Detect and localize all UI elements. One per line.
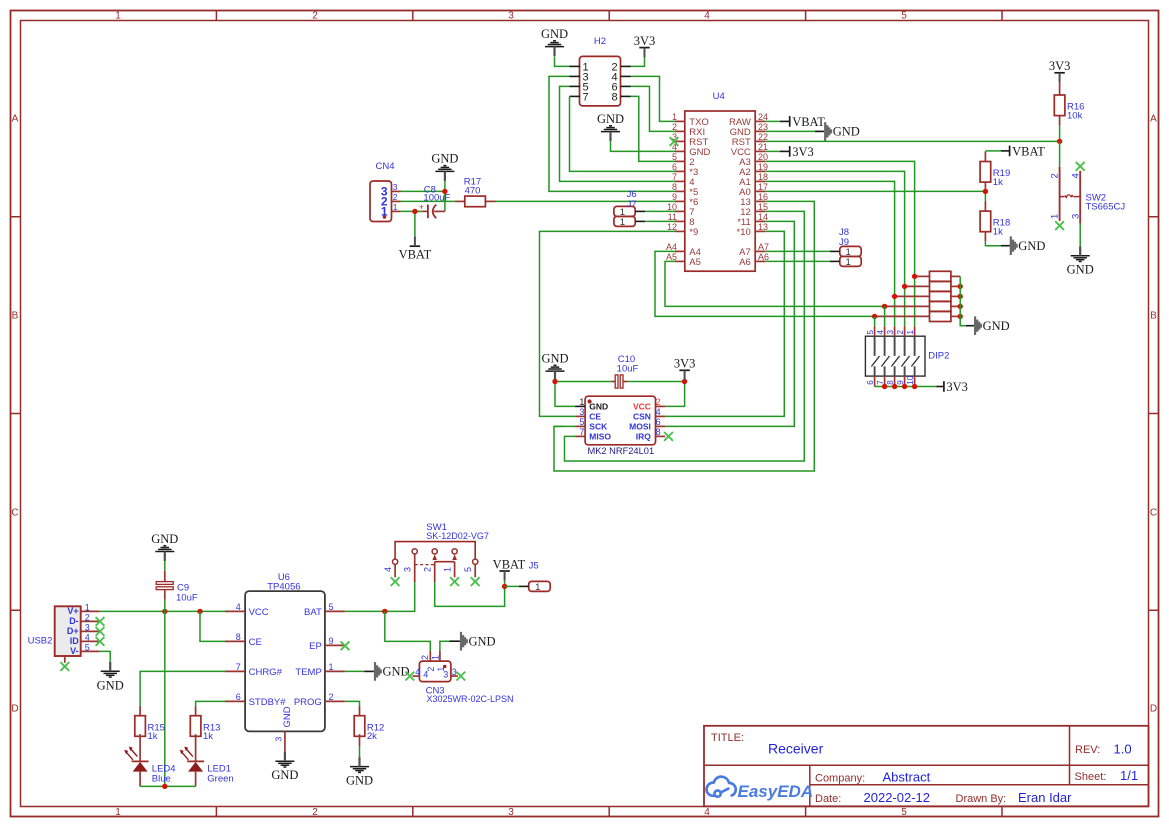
svg-text:3: 3 <box>508 11 514 22</box>
svg-text:1: 1 <box>535 582 540 593</box>
svg-text:3: 3 <box>1070 214 1081 219</box>
svg-text:5: 5 <box>579 417 584 427</box>
wire U4 pin14 to NRF MOSI <box>665 221 794 426</box>
svg-text:3V3: 3V3 <box>1049 59 1071 73</box>
svg-text:3V3: 3V3 <box>674 357 696 371</box>
wire U4 A5 to DIP2 pin4 row <box>665 261 885 306</box>
svg-text:VCC: VCC <box>249 607 269 618</box>
svg-text:3: 3 <box>443 670 448 680</box>
svg-text:1: 1 <box>443 567 453 572</box>
junction <box>958 314 963 319</box>
svg-text:D: D <box>11 704 18 715</box>
svg-text:2022-02-12: 2022-02-12 <box>864 790 931 805</box>
svg-text:2: 2 <box>329 692 334 702</box>
svg-text:2: 2 <box>672 122 677 132</box>
svg-text:2: 2 <box>656 397 661 407</box>
svg-text:V+: V+ <box>67 606 78 616</box>
svg-text:9: 9 <box>329 636 334 646</box>
U4 pin A5 <box>675 260 685 262</box>
svg-text:J5: J5 <box>529 560 539 571</box>
resistor R18 <box>984 202 986 212</box>
svg-text:VCC: VCC <box>633 401 651 411</box>
svg-text:1: 1 <box>393 202 398 212</box>
svg-text:VBAT: VBAT <box>1012 144 1045 158</box>
svg-text:7: 7 <box>672 172 677 182</box>
wire R12 to GND <box>359 746 361 757</box>
svg-text:10: 10 <box>906 375 915 384</box>
svg-text:VBAT: VBAT <box>493 557 526 571</box>
wire DIP2 pin5 riser <box>874 316 876 326</box>
svg-text:GND: GND <box>97 678 124 692</box>
svg-text:3: 3 <box>273 737 283 742</box>
wire TEMP to GND flag <box>345 670 364 672</box>
no-connect X on NRF pin8 IRQ <box>664 432 673 441</box>
svg-text:A5: A5 <box>666 252 677 262</box>
LED LED1 Green <box>195 734 197 761</box>
svg-text:U4: U4 <box>713 91 725 102</box>
ground GND above H2 pin1 <box>545 41 564 47</box>
svg-text:1: 1 <box>906 330 915 335</box>
U4 pin 11 <box>675 220 685 222</box>
svg-text:Blue: Blue <box>152 774 171 785</box>
svg-text:23: 23 <box>758 122 768 132</box>
wire U4 pin22 RST to R16/SW2 node <box>765 140 1059 142</box>
svg-text:D-: D- <box>69 616 79 626</box>
svg-text:TEMP: TEMP <box>295 667 321 678</box>
svg-text:8: 8 <box>672 182 677 192</box>
svg-text:J7: J7 <box>627 199 637 210</box>
svg-text:4: 4 <box>415 667 420 677</box>
U4 pin 14 <box>755 220 765 222</box>
wire U4 pin18 A1 to resistor network row3 / DIP2 pin3 <box>765 181 894 326</box>
svg-text:STDBY#: STDBY# <box>249 697 287 708</box>
svg-text:8: 8 <box>656 427 661 437</box>
connector J9 <box>840 256 861 266</box>
svg-text:GND: GND <box>1067 263 1094 277</box>
svg-text:C: C <box>11 508 18 519</box>
no-connect X on SW1 pin1 <box>450 577 459 586</box>
svg-text:1k: 1k <box>993 227 1003 238</box>
svg-text:2k: 2k <box>367 731 377 742</box>
wire U4 pin19 A2 to resistor network row2 / DIP2 pin2 <box>765 171 904 326</box>
svg-text:3V3: 3V3 <box>792 145 814 159</box>
svg-text:1: 1 <box>579 397 584 407</box>
connector J7 <box>614 216 635 226</box>
resistor network R row2 <box>905 285 930 287</box>
U4 pin A6 <box>755 260 765 262</box>
svg-text:4: 4 <box>85 633 90 643</box>
junction <box>682 379 687 384</box>
wire U4 pin12 to NRF CE <box>540 231 676 416</box>
svg-text:Company:: Company: <box>815 772 865 784</box>
wire VBUS to LED cathode rail <box>164 611 166 786</box>
wire SW2 pin3 to GND <box>1079 224 1081 247</box>
capacitor C9 <box>164 561 166 571</box>
no-connect X on SW2 pin1 <box>1055 221 1064 230</box>
U4 pin 9 <box>675 200 685 202</box>
wire DIP2 bottom common to 3V3 <box>875 386 937 388</box>
svg-text:A6: A6 <box>758 252 769 262</box>
svg-text:1k: 1k <box>203 731 213 742</box>
svg-text:2: 2 <box>85 613 90 623</box>
svg-text:1: 1 <box>620 217 625 228</box>
svg-text:470: 470 <box>465 185 481 196</box>
resistor R16 <box>1059 83 1061 95</box>
svg-text:19: 19 <box>758 162 768 172</box>
power flag 3V3 above R16 <box>1054 72 1064 74</box>
wire SW1 pin2 to VBAT node <box>435 582 505 606</box>
svg-text:PROG: PROG <box>294 697 322 708</box>
svg-text:CSN: CSN <box>633 411 651 421</box>
svg-text:VBAT: VBAT <box>792 115 825 129</box>
resistor R15 <box>139 706 141 716</box>
svg-text:4: 4 <box>1070 173 1081 178</box>
svg-text:D+: D+ <box>67 626 79 636</box>
svg-text:+: + <box>419 202 424 211</box>
U4 pin 20 <box>755 160 765 162</box>
wire BAT rail to SW1 pin3 <box>345 582 415 611</box>
svg-text:9: 9 <box>672 192 677 202</box>
svg-text:1k: 1k <box>148 731 158 742</box>
svg-text:GND: GND <box>589 401 608 411</box>
junction <box>892 384 897 389</box>
svg-text:GND: GND <box>151 532 178 546</box>
svg-text:REV:: REV: <box>1075 744 1100 756</box>
U4 pin A4 <box>675 250 685 252</box>
svg-text:4: 4 <box>236 602 241 612</box>
junction <box>958 284 963 289</box>
svg-text:*9: *9 <box>689 227 698 238</box>
svg-text:GND: GND <box>469 635 496 649</box>
U4 pin 1 <box>675 120 685 122</box>
svg-text:A: A <box>1150 114 1157 125</box>
wire R17 to U4 pin9 <box>496 200 675 202</box>
wire LED cathode rail <box>140 785 196 787</box>
svg-text:Eran Idar: Eran Idar <box>1018 790 1072 805</box>
svg-text:8: 8 <box>611 92 617 104</box>
resistor network R row1 <box>915 275 930 277</box>
svg-text:TP4056: TP4056 <box>267 581 300 592</box>
no-connect X on USB2 D+ <box>96 627 105 636</box>
svg-text:MK2 NRF24L01: MK2 NRF24L01 <box>587 446 654 456</box>
svg-text:3: 3 <box>452 667 457 677</box>
no-connect X on SW2 pin4 <box>1076 162 1085 171</box>
svg-text:GND: GND <box>983 319 1010 333</box>
svg-text:1: 1 <box>329 662 334 672</box>
junction <box>983 189 988 194</box>
resistor network R row4 <box>885 305 930 307</box>
svg-text:2: 2 <box>423 567 433 572</box>
no-connect X on USB2 D- <box>96 617 105 626</box>
U4 pin 21 <box>755 150 765 152</box>
connector CN4 <box>370 181 392 222</box>
wire R16 to RST node <box>1059 126 1061 142</box>
op-amp U4 main module <box>685 111 755 271</box>
svg-text:V-: V- <box>70 646 79 656</box>
wire U4 pin13 to NRF CSN <box>665 231 784 416</box>
ground GND above C9 <box>155 546 174 552</box>
wire BAT node to CN3 pin2 <box>385 611 431 651</box>
wire DIP2 pin4 riser <box>884 306 886 326</box>
svg-text:ID: ID <box>70 636 80 646</box>
svg-text:10k: 10k <box>1067 110 1083 121</box>
junction <box>412 209 417 214</box>
wire CN4.2 to R17 <box>401 200 455 202</box>
EasyEDA logo <box>706 777 735 797</box>
svg-text:10uF: 10uF <box>176 593 198 604</box>
svg-text:GND: GND <box>541 351 568 365</box>
junction <box>552 379 557 384</box>
junction <box>442 189 447 194</box>
power flag 3V3 at DIP2 <box>943 381 945 392</box>
svg-text:3: 3 <box>403 567 413 572</box>
ground GND flag at resistor network <box>974 316 982 335</box>
connector USB2 <box>55 606 81 656</box>
svg-text:DIP2: DIP2 <box>928 351 949 362</box>
U4 pin 19 <box>755 170 765 172</box>
capacitor C10 <box>611 381 615 383</box>
capacitor C8 <box>415 210 422 212</box>
svg-text:1/1: 1/1 <box>1120 768 1138 783</box>
power flag 3V3 above NRF <box>679 369 689 371</box>
resistor R17 <box>455 200 465 202</box>
connector CN3 <box>419 661 451 682</box>
svg-text:10uF: 10uF <box>617 364 639 375</box>
wire H2.8 to U4 pin5 <box>631 96 676 161</box>
svg-text:Green: Green <box>207 774 233 785</box>
svg-text:3: 3 <box>508 807 514 818</box>
junction <box>1057 139 1062 144</box>
svg-text:B: B <box>1150 311 1157 322</box>
U4 pin A7 <box>755 250 765 252</box>
U4 pin 7 <box>675 180 685 182</box>
wire RST node to SW2 pin2 <box>1059 141 1061 167</box>
svg-text:J9: J9 <box>839 237 849 248</box>
ground GND above C8 <box>435 166 454 172</box>
wire U4 pin16 to NRF SCK <box>554 201 814 471</box>
svg-text:A7: A7 <box>758 242 769 252</box>
U4 pin 22 <box>755 140 765 142</box>
svg-text:20: 20 <box>758 152 768 162</box>
power flag VBAT at U4 pin24 <box>765 120 780 122</box>
ground GND flag at U6 TEMP <box>374 662 382 681</box>
svg-text:3: 3 <box>886 330 895 335</box>
svg-text:3: 3 <box>85 623 90 633</box>
ground GND flag at CN3 pin1 <box>460 632 468 651</box>
svg-text:2: 2 <box>312 807 318 818</box>
U6 pin3 GND bottom <box>284 731 286 751</box>
svg-text:H2: H2 <box>594 36 606 47</box>
wire CN4.3 to GND node <box>401 190 445 192</box>
junction <box>162 784 167 789</box>
svg-text:7: 7 <box>236 662 241 672</box>
svg-text:CE: CE <box>249 637 262 648</box>
junction <box>162 609 167 614</box>
junction <box>882 384 887 389</box>
U4 pin 18 <box>755 180 765 182</box>
svg-text:7: 7 <box>579 427 584 437</box>
svg-text:5: 5 <box>463 567 473 572</box>
power flag 3V3 at U4 pin21 <box>765 150 780 152</box>
connector J8 <box>840 246 861 256</box>
no-connect X on SW1 pin5 <box>471 577 480 586</box>
switch DIP2 <box>865 336 925 376</box>
LED LED4 Blue <box>139 734 141 761</box>
svg-text:1: 1 <box>85 603 90 613</box>
svg-text:4: 4 <box>704 807 710 818</box>
wire C10 to 3V3 node and NRF pin2 <box>627 381 685 383</box>
wire VBAT node to J5 <box>505 585 519 587</box>
svg-text:X3025WR-02C-LPSN: X3025WR-02C-LPSN <box>427 694 514 704</box>
svg-text:16: 16 <box>758 192 768 202</box>
wire CN3 pin1 to GND flag <box>440 641 450 651</box>
wire STDBY# to R13 <box>196 701 225 706</box>
svg-text:C: C <box>1150 508 1157 519</box>
wire resistor network common to GND <box>960 276 966 325</box>
svg-text:D: D <box>1150 704 1157 715</box>
junction <box>958 294 963 299</box>
svg-text:5: 5 <box>329 602 334 612</box>
wire U4 A7 to J8 <box>765 250 830 252</box>
U4 pin 2 <box>675 130 685 132</box>
title block <box>704 726 1149 807</box>
U4 pin 15 <box>755 210 765 212</box>
svg-text:6: 6 <box>672 162 677 172</box>
svg-text:8: 8 <box>236 632 241 642</box>
ground GND below USB2 <box>101 671 120 677</box>
svg-text:22: 22 <box>758 132 768 142</box>
svg-text:1: 1 <box>846 257 851 268</box>
svg-text:EasyEDA: EasyEDA <box>738 782 814 801</box>
wire CE branch <box>200 611 225 641</box>
U4 pin 3 <box>675 140 685 142</box>
wire H2.7 to U4 pin6 <box>570 96 676 171</box>
wire U4 pin15 to NRF MISO <box>565 211 805 461</box>
svg-text:USB2: USB2 <box>28 636 53 647</box>
svg-text:4: 4 <box>876 330 885 335</box>
wire VBUS rail USB2 V+ to U6 VCC <box>100 610 225 612</box>
svg-text:TITLE:: TITLE: <box>711 732 744 744</box>
wire C9 to VBUS rail <box>164 600 166 612</box>
svg-text:2: 2 <box>896 330 905 335</box>
resistor R19 <box>984 152 986 162</box>
svg-text:GND: GND <box>597 112 624 126</box>
junction <box>502 584 507 589</box>
resistor network R row3 <box>895 295 930 297</box>
svg-text:4: 4 <box>423 670 428 680</box>
wire NRF SCK stub link <box>554 425 575 427</box>
resistor network R row5 <box>875 315 930 317</box>
svg-text:2: 2 <box>1050 173 1061 178</box>
junction <box>382 609 387 614</box>
no-connect X on USB2 shield <box>60 662 69 671</box>
junction <box>912 384 917 389</box>
svg-text:A5: A5 <box>689 257 701 268</box>
U4 pin 16 <box>755 200 765 202</box>
svg-text:10: 10 <box>667 202 677 212</box>
svg-text:1: 1 <box>431 655 441 660</box>
svg-text:*10: *10 <box>737 227 751 238</box>
wire H2.5 to U4 pin7 <box>560 86 676 181</box>
ground GND flag below R18 <box>1010 236 1018 255</box>
wire J7 to U4 pin11 <box>645 220 675 222</box>
svg-text:5: 5 <box>85 643 90 653</box>
svg-text:15: 15 <box>758 202 768 212</box>
svg-text:Abstract: Abstract <box>883 769 931 784</box>
svg-text:CN4: CN4 <box>375 161 394 172</box>
wire GND to H2.1 <box>555 56 570 66</box>
svg-text:1: 1 <box>672 112 677 122</box>
svg-text:TS665CJ: TS665CJ <box>1086 202 1126 213</box>
U4 pin 4 <box>675 150 685 152</box>
wire PROG to R12 <box>345 701 360 706</box>
svg-text:Sheet:: Sheet: <box>1075 771 1107 783</box>
svg-text:13: 13 <box>758 222 768 232</box>
U4 pin 12 <box>675 230 685 232</box>
svg-text:A6: A6 <box>739 257 751 268</box>
svg-text:5: 5 <box>901 11 907 22</box>
wire U4 pin17 A0 to R19/R18 node <box>765 190 985 192</box>
svg-text:21: 21 <box>758 142 768 152</box>
svg-text:SK-12D02-VG7: SK-12D02-VG7 <box>426 531 489 541</box>
svg-text:1.0: 1.0 <box>1114 742 1132 757</box>
wire H2.6 to U4 pin2 <box>631 86 676 131</box>
svg-text:1: 1 <box>115 11 121 22</box>
U4 pin 6 <box>675 170 685 172</box>
svg-text:24: 24 <box>758 112 768 122</box>
svg-text:4: 4 <box>383 567 393 572</box>
junction <box>872 314 877 319</box>
ground GND flag at U4 pin23 <box>824 122 832 141</box>
svg-text:3: 3 <box>579 407 584 417</box>
svg-text:2: 2 <box>393 192 398 202</box>
power flag VBAT above J5 <box>499 570 509 572</box>
svg-text:Receiver: Receiver <box>768 741 824 757</box>
svg-text:5: 5 <box>672 152 677 162</box>
svg-text:6: 6 <box>236 692 241 702</box>
svg-text:GND: GND <box>1018 239 1045 253</box>
svg-text:7: 7 <box>582 92 588 104</box>
svg-text:MISO: MISO <box>589 431 611 441</box>
resistor R13 <box>195 706 197 716</box>
wire U4 pin23 to GND flag <box>765 130 820 132</box>
svg-text:GND: GND <box>282 706 293 727</box>
USB2 shield pin <box>64 656 66 663</box>
junction <box>958 304 963 309</box>
ground GND below R12 <box>350 767 369 773</box>
ground GND below U6 <box>275 761 294 767</box>
junction <box>902 384 907 389</box>
svg-text:5: 5 <box>866 330 875 335</box>
wire CN4.1 to VBAT <box>401 210 415 212</box>
svg-text:SCK: SCK <box>589 421 608 431</box>
wire H2.4 to U4 pin1 <box>631 76 676 121</box>
svg-text:2: 2 <box>312 11 318 22</box>
svg-text:GND: GND <box>833 125 860 139</box>
resistor R12 <box>359 706 361 716</box>
U4 pin 13 <box>755 230 765 232</box>
module MK2 NRF24L01 <box>585 396 655 445</box>
svg-text:6: 6 <box>866 380 875 385</box>
power flag 3V3 above H2 pin2 <box>639 47 649 49</box>
U4 pin 5 <box>675 160 685 162</box>
svg-text:VBAT: VBAT <box>399 248 432 262</box>
svg-text:Date:: Date: <box>815 793 841 805</box>
svg-text:A4: A4 <box>666 242 677 252</box>
ground GND left of NRF module <box>546 365 565 371</box>
svg-text:B: B <box>12 311 19 322</box>
wire J6 to U4 pin10 <box>645 210 675 212</box>
